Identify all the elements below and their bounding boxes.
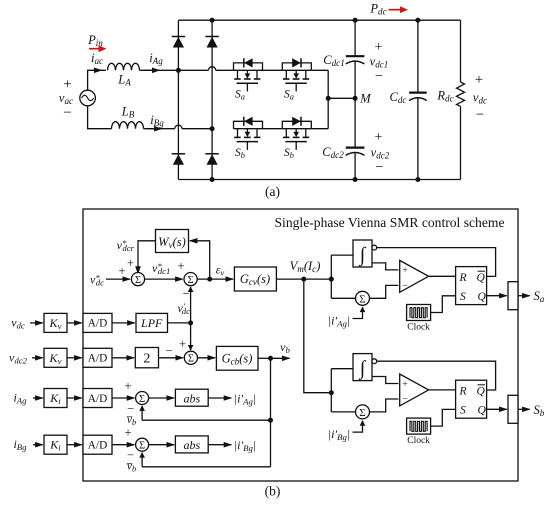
junction top rail cap leg [353, 18, 358, 23]
svg-text:Q: Q [477, 272, 486, 284]
summer S3 [184, 351, 197, 364]
RS flipflop upper [456, 267, 487, 305]
svg-text:Q: Q [478, 291, 487, 303]
block A/D row2 [83, 348, 112, 367]
output arrow Sb [518, 408, 530, 410]
output arrow Sa [518, 295, 530, 297]
junction top rail Cdc [415, 18, 420, 23]
integrator block upper [353, 240, 372, 267]
svg-text:+: + [475, 72, 483, 88]
mosfet Sb left [234, 128, 263, 130]
svg-text:+: + [375, 130, 383, 145]
top rail [178, 19, 460, 21]
block Kv row2 [44, 348, 67, 367]
mosfet Sa left [234, 69, 263, 71]
diode leg B vertical [211, 20, 213, 179]
svg-text:Σ: Σ [139, 394, 145, 405]
node A junction [176, 68, 181, 73]
svg-text:Σ: Σ [359, 293, 365, 305]
diode D1 top of leg A [172, 36, 185, 38]
block Gcv(s) [234, 267, 276, 291]
svg-text:R: R [459, 385, 467, 397]
summer S4 [136, 392, 149, 405]
wire v'dc down to S3 [190, 323, 192, 350]
wire lower current into summer [353, 421, 363, 432]
integrator block lower [353, 354, 372, 381]
arrow Ki to A/D row4 [67, 444, 82, 446]
summer output wire upper [370, 285, 399, 298]
junction v'dc [188, 320, 193, 325]
wire between Sa mosfets [263, 69, 283, 71]
arrow abs to |i'Bg| [208, 444, 231, 446]
comparator output upper [429, 275, 456, 277]
comparator upper [400, 260, 429, 292]
svg-text:−: − [376, 160, 384, 175]
arrow A/D to LPF [112, 322, 135, 324]
wire source bottom to B line [88, 106, 112, 129]
clock to S wire upper [431, 296, 456, 313]
junction mid vertical [326, 96, 331, 101]
arrow Kv to A/D row1 [67, 322, 82, 324]
svg-text:+: + [127, 256, 134, 270]
svg-text:Q: Q [478, 405, 487, 417]
arrow S3 to Gcb [198, 357, 216, 359]
svg-text:M: M [359, 92, 371, 106]
wire Sa to mid vertical [311, 69, 328, 71]
diode leg A vertical [177, 20, 179, 179]
junction ev tap [207, 277, 212, 282]
arrow Kv to A/D row2 [67, 357, 82, 359]
svg-text:+: + [177, 259, 184, 273]
clock to S wire lower [431, 409, 456, 426]
svg-text:−: − [182, 287, 189, 301]
summer S2 [184, 273, 197, 286]
svg-text:LPF: LPF [140, 316, 163, 330]
svg-text:Single-phase Vienna SMR contro: Single-phase Vienna SMR control scheme [275, 215, 505, 230]
arrow vdc2 to Kv [32, 357, 43, 359]
junction bottom rail cap leg [353, 177, 358, 182]
svg-text:−: − [476, 107, 484, 123]
svg-text:−: − [63, 105, 71, 121]
summer S5 [136, 438, 149, 451]
svg-text:+: + [179, 337, 186, 351]
svg-text:Σ: Σ [139, 440, 145, 451]
junction branch upper [329, 277, 334, 282]
feedback arrow into S5 [141, 453, 143, 467]
Q output arrow lower [487, 408, 507, 410]
red arrow P_dc [389, 9, 403, 11]
Qbar feedback upper [377, 248, 496, 277]
capacitor leg Cdc1/Cdc2 [354, 20, 356, 56]
A line hop over leg B [178, 69, 208, 71]
wire A line to Sa switches [216, 69, 234, 71]
arrow A/D to gain 2 [112, 357, 134, 359]
capacitor leg Cdc [417, 20, 419, 92]
wire to integrator lower [331, 368, 353, 370]
wire Sb to mid vertical [311, 128, 328, 130]
feedback arrow into S4 [141, 406, 143, 420]
svg-text:abs: abs [183, 392, 200, 406]
svg-text:A/D: A/D [88, 353, 107, 365]
junction branch lower [329, 390, 334, 395]
block abs row3 [175, 389, 208, 406]
red arrow P_in [89, 48, 102, 50]
wire v'dc up to S2 [190, 287, 192, 323]
comparator output lower [429, 389, 456, 391]
svg-text:R: R [459, 272, 467, 284]
wire S1 to S2 [145, 278, 183, 280]
arrow vb out [271, 357, 290, 359]
junction bottom rail Cdc [415, 177, 420, 182]
wire to summer lower [331, 411, 355, 413]
junction vb [268, 356, 273, 361]
block A/D row4 [83, 435, 112, 454]
svg-text:S: S [460, 405, 466, 417]
svg-text:−: − [402, 395, 407, 405]
node B junction [210, 126, 215, 131]
resistor Rdc leg [460, 20, 462, 82]
diode D3 bottom of leg A [172, 153, 185, 155]
junction feedback row3 [268, 418, 273, 423]
arrow A/D to S5 [112, 444, 134, 446]
svg-text:A/D: A/D [88, 393, 107, 405]
ac source vac [80, 90, 96, 106]
mosfet Sb right [282, 128, 311, 130]
inductor L_A [108, 63, 140, 70]
svg-text:Σ: Σ [188, 354, 194, 365]
svg-text:+: + [375, 40, 383, 55]
integrator reset bubble upper [372, 245, 377, 250]
arrow 2 to S3 [159, 357, 184, 359]
svg-text:Σ: Σ [359, 407, 365, 419]
junction Vm to Sb group [301, 277, 306, 282]
diode D4 bottom of leg B [205, 153, 218, 155]
svg-text:2: 2 [143, 351, 150, 366]
summer lower [356, 405, 370, 419]
output gate rect lower [508, 395, 518, 423]
block Ki row3 [44, 389, 67, 408]
wire between Sb mosfets [263, 128, 283, 130]
svg-text:−: − [402, 282, 407, 292]
svg-text:+: + [124, 379, 131, 393]
junction Vm to Sa group [329, 277, 334, 282]
mid vertical joining Sa Sb [327, 70, 329, 128]
wire upper current into summer [353, 307, 363, 318]
block A/D row3 [83, 389, 112, 408]
svg-text:Σ: Σ [188, 275, 194, 286]
output gate rect upper [508, 282, 518, 310]
svg-text:+: + [124, 426, 131, 440]
block gain 2 [135, 348, 158, 368]
wire Wv output to summer S1 [138, 241, 156, 274]
arrow i_ac [92, 69, 102, 71]
arrow vdc to Kv [30, 322, 43, 324]
feedback wire row3 [142, 419, 270, 421]
svg-text:Q: Q [477, 385, 486, 397]
integrator output wire lower [372, 377, 398, 384]
block Gcb(s) [216, 346, 258, 370]
Q output arrow upper [487, 295, 507, 297]
svg-text:Wv(s): Wv(s) [158, 235, 186, 250]
capacitor Cdc1 [346, 55, 365, 57]
summer output wire lower [370, 399, 399, 412]
arrow A/D to S4 [112, 397, 134, 399]
node M junction [353, 96, 358, 101]
wire M to Cdc2 [354, 98, 356, 147]
svg-text:A/D: A/D [88, 318, 107, 330]
block Kv row1 [44, 313, 67, 332]
svg-text:(b): (b) [265, 484, 281, 499]
arrow Ki to A/D row3 [67, 397, 82, 399]
mosfet Sa right [282, 69, 311, 71]
svg-text:S: S [460, 291, 466, 303]
wire S2 to Gcv [197, 278, 233, 280]
summer S1 [131, 273, 144, 286]
wire Gcb to vb node [258, 357, 271, 359]
wire to node M [328, 97, 355, 99]
arrow iBg to Ki [33, 444, 43, 446]
feedback wire row4 [142, 466, 270, 468]
block LPF [136, 313, 168, 332]
integrator reset bubble lower [372, 359, 377, 364]
block A/D row1 [83, 313, 112, 332]
wire LA to node A with arrow i_Ag [140, 69, 179, 71]
svg-text:−: − [375, 69, 383, 84]
clock block lower [407, 418, 431, 434]
bottom rail [178, 179, 460, 181]
integrator output wire upper [372, 263, 398, 270]
clock block upper [407, 305, 431, 321]
svg-text:+: + [63, 77, 71, 93]
svg-text:Vm(Ic): Vm(Ic) [290, 259, 321, 274]
svg-text:(a): (a) [265, 184, 280, 199]
junction top rail leg B [210, 18, 215, 23]
summer upper [356, 291, 370, 305]
branch vertical lower [330, 369, 332, 412]
arrow S4 to abs [149, 397, 175, 399]
svg-text:+: + [402, 380, 407, 390]
svg-text:Clock: Clock [407, 323, 430, 333]
svg-text:Σ: Σ [135, 275, 141, 286]
vb feedback vertical [270, 358, 272, 467]
control scheme outer box [83, 209, 518, 481]
comparator lower [400, 374, 429, 406]
arrow v*dc to S1 [106, 278, 130, 280]
wire Vm down to Sb group [304, 279, 332, 393]
wire to summer upper [331, 297, 355, 299]
wire ev tap to Wv input [190, 241, 210, 279]
svg-text:−: − [165, 344, 172, 358]
block Wv(s) [156, 230, 189, 253]
wire Gcv to branch [276, 278, 331, 280]
branch vertical upper [330, 255, 332, 298]
svg-text:abs: abs [183, 438, 200, 452]
arrow abs to |i'Ag| [208, 397, 231, 399]
arrow iAg to Ki [33, 397, 43, 399]
inductor L_B [112, 122, 144, 129]
arrow S5 to abs [149, 444, 175, 446]
capacitor Cdc2 [346, 147, 365, 149]
Qbar feedback lower [377, 361, 496, 390]
wire source top to A line [88, 70, 106, 90]
RS flipflop lower [456, 380, 487, 418]
block abs row4 [175, 436, 208, 453]
capacitor Cdc [409, 91, 427, 93]
wire to integrator upper [331, 254, 353, 256]
block Ki row4 [44, 435, 67, 454]
diode D2 top of leg B [205, 36, 218, 38]
svg-text:A/D: A/D [88, 440, 107, 452]
wire LPF to junction [168, 322, 191, 324]
svg-text:+: + [402, 266, 407, 276]
svg-text:+: + [118, 264, 125, 278]
wire LB to node B with arrow i_Bg [144, 128, 175, 130]
junction bottom rail leg B [210, 177, 215, 182]
svg-text:Clock: Clock [407, 436, 430, 446]
